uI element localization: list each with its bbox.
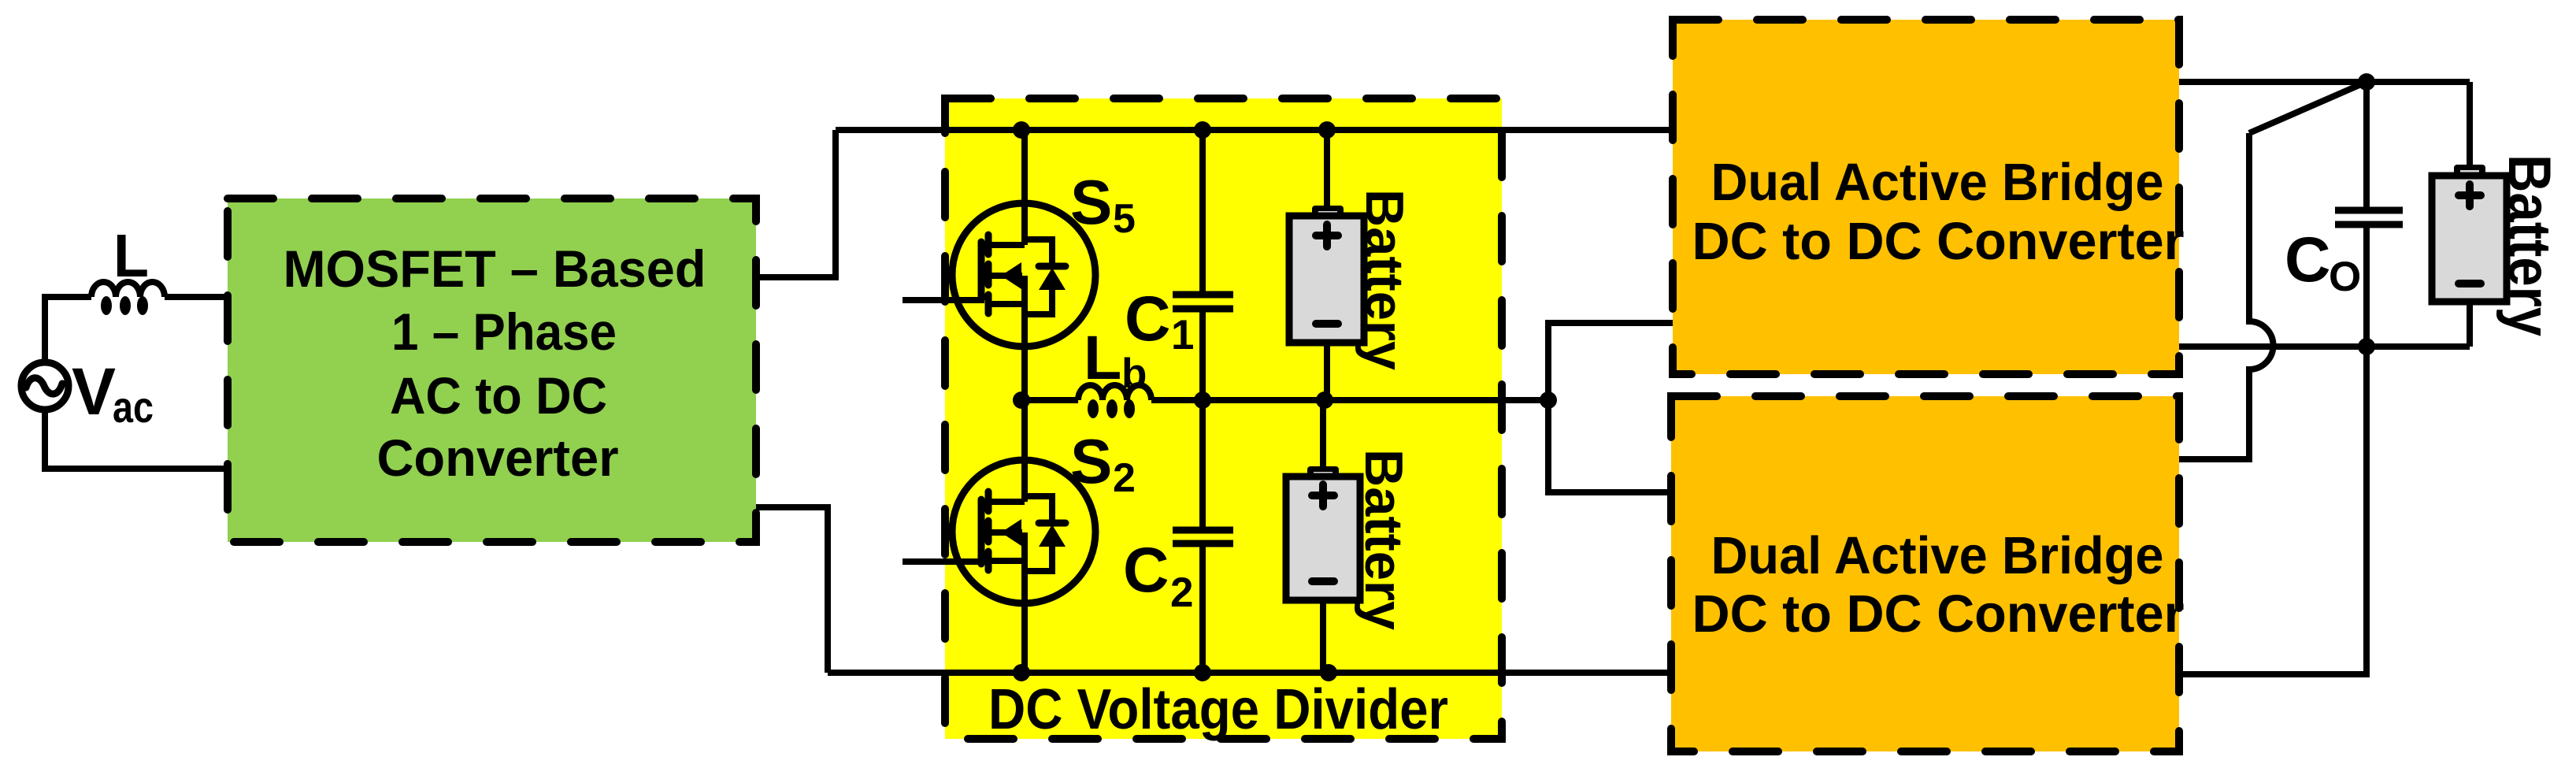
svg-text:Converter: Converter	[377, 429, 619, 487]
svg-text:DC to DC Converter: DC to DC Converter	[1692, 212, 2185, 271]
block DAB converter 2 (orange)	[1671, 396, 2179, 751]
svg-text:DC Voltage Divider: DC Voltage Divider	[988, 678, 1448, 741]
wire Vac top to inductor L	[45, 297, 91, 363]
wire converter upper output riser	[756, 130, 836, 277]
svg-text:1 – Phase: 1 – Phase	[391, 302, 617, 361]
label C2	[1123, 535, 1193, 616]
svg-text:Battery: Battery	[1355, 189, 1414, 370]
AC source Vac	[21, 362, 69, 410]
block DAB converter 1 (orange)	[1673, 20, 2179, 374]
svg-text:Dual Active Bridge: Dual Active Bridge	[1711, 526, 2164, 585]
battery B2	[1286, 400, 1360, 673]
node middle rail C1/C2	[1194, 391, 1211, 409]
label CO	[2285, 224, 2361, 300]
wire DAB1 top output to battery	[2179, 79, 2470, 85]
mosfet S5	[952, 130, 1095, 400]
battery B1	[1289, 130, 1364, 400]
label DAB converter 2 text	[1692, 526, 2185, 644]
svg-text:O: O	[2329, 254, 2361, 300]
node output top	[2358, 73, 2375, 91]
node middle rail S5/S2	[1013, 391, 1030, 409]
svg-text:ac: ac	[113, 382, 154, 432]
wire mid node riser to DAB converters	[1548, 323, 1673, 492]
node bottom rail C2	[1194, 664, 1211, 681]
wire inductor L to converter	[165, 294, 228, 300]
wire DAB1 bottom output to battery	[2179, 343, 2470, 350]
label Vac	[72, 354, 154, 432]
label S5	[1070, 167, 1136, 242]
wire DAB2 top output with hop	[2179, 133, 2273, 459]
svg-text:C: C	[2285, 224, 2331, 295]
wire middle rail left	[1021, 397, 1078, 403]
capacitor C1	[1173, 130, 1233, 400]
wire middle rail right	[1151, 397, 1548, 403]
svg-text:1: 1	[1171, 312, 1194, 358]
svg-text:b: b	[1121, 351, 1147, 397]
node middle rail right end	[1540, 391, 1557, 409]
inductor Lb	[1078, 385, 1151, 418]
wire S2 gate stub	[903, 558, 984, 565]
svg-text:AC to DC: AC to DC	[390, 366, 607, 425]
node bottom rail S2	[1013, 664, 1030, 681]
svg-text:L: L	[1084, 322, 1121, 392]
svg-text:S: S	[1070, 426, 1112, 496]
label S2	[1070, 426, 1136, 501]
block MOSFET AC-DC converter (green)	[228, 198, 756, 542]
svg-text:2: 2	[1170, 570, 1193, 616]
capacitor CO	[2335, 82, 2403, 347]
label MOSFET AC-DC converter text	[284, 239, 706, 487]
svg-text:C: C	[1125, 284, 1171, 354]
svg-text:5: 5	[1113, 196, 1136, 242]
svg-text:DC to DC Converter: DC to DC Converter	[1692, 584, 2185, 644]
svg-text:L: L	[113, 222, 149, 290]
svg-text:MOSFET – Based: MOSFET – Based	[284, 239, 706, 298]
capacitor C2	[1173, 400, 1233, 673]
label C1	[1125, 284, 1194, 358]
block DC voltage divider (yellow)	[945, 98, 1502, 739]
inductor L	[91, 282, 165, 315]
node middle rail batteries	[1316, 391, 1333, 409]
label DAB converter 1 text	[1692, 153, 2185, 271]
svg-text:Dual Active Bridge: Dual Active Bridge	[1711, 153, 2164, 212]
node bottom rail battery B2	[1320, 664, 1337, 681]
wire Vac bottom to converter	[45, 409, 228, 469]
wire S5 gate stub	[903, 297, 984, 303]
node output bottom	[2358, 338, 2375, 355]
wire diagonal to top node	[2249, 82, 2367, 133]
label Lb	[1084, 322, 1147, 397]
svg-text:Battery: Battery	[2496, 154, 2563, 336]
wire top rail	[836, 127, 1673, 133]
svg-text:C: C	[1123, 535, 1169, 606]
mosfet S2	[952, 400, 1095, 673]
svg-text:V: V	[72, 354, 116, 429]
wire converter lower output riser	[756, 507, 828, 673]
battery B3	[2432, 82, 2507, 347]
node top rail S5	[1013, 121, 1030, 139]
svg-text:2: 2	[1113, 455, 1136, 501]
node top rail battery B1	[1318, 121, 1336, 139]
node top rail C1	[1194, 121, 1211, 139]
wire bottom return DAB2	[2179, 347, 2367, 674]
svg-text:Battery: Battery	[1354, 449, 1414, 630]
wire bottom rail	[828, 670, 1671, 676]
svg-text:S: S	[1070, 167, 1112, 237]
